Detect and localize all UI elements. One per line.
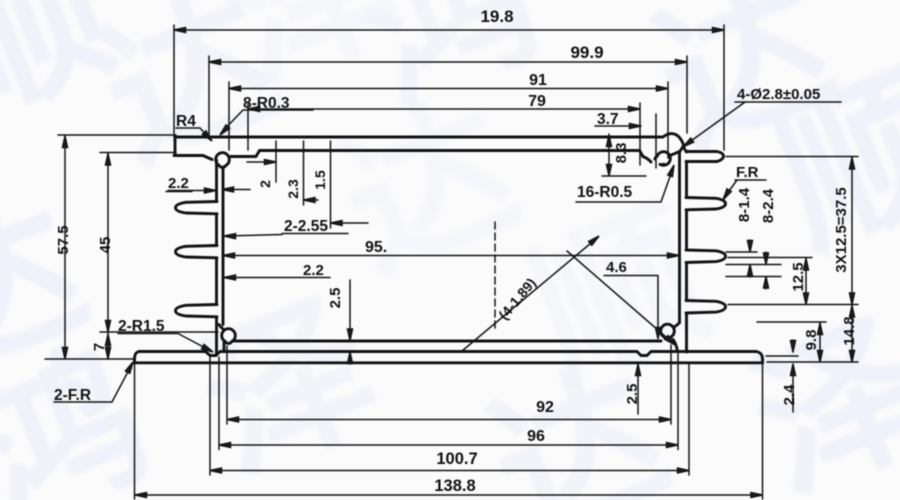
svg-text:99.9: 99.9 [570,43,603,62]
svg-text:2.2: 2.2 [168,175,189,192]
svg-text:16-R0.5: 16-R0.5 [577,184,633,201]
dim 8.3 [602,134,646,176]
svg-text:2.2: 2.2 [303,262,324,279]
svg-text:3X12.5=37.5: 3X12.5=37.5 [833,187,850,273]
svg-text:8-R0.3: 8-R0.3 [243,95,290,112]
dim 4.6 [604,276,658,337]
svg-text:1.5: 1.5 [312,170,328,190]
svg-text:7: 7 [91,343,108,351]
top bar bottom edge centre [231,151,644,157]
screw boss top-right [657,152,670,166]
dim 92 [227,345,671,424]
svg-text:95.: 95. [365,239,387,256]
top bar top edge [175,134,684,147]
leader diagonal right [567,251,674,344]
svg-text:2-F.R: 2-F.R [54,387,91,404]
right wall head joint [680,147,687,153]
top bar left tip edge [174,137,177,156]
dim 2.2 lower [226,277,330,279]
inner floor line [233,340,661,343]
right fin 3 [686,301,726,314]
left fin 1 [176,202,218,214]
svg-text:2.5: 2.5 [624,384,641,405]
svg-text:R4: R4 [176,113,196,130]
left fin 2 [176,246,218,258]
svg-text:4.6: 4.6 [606,259,627,276]
base plate right corner [756,352,763,364]
top bar bottom edge left taper [174,156,212,160]
dim 2.3 lower [349,280,351,364]
svg-text:2: 2 [257,180,273,188]
dim 100.7 [210,357,689,475]
screw boss top-left [216,153,230,166]
base plate top edge [139,352,756,356]
leader 2-R1.5 [118,334,211,352]
svg-text:2.3: 2.3 [285,179,301,199]
leader 2-F.R [54,364,132,402]
dim 7 arrows [106,334,111,346]
right fin 2 [686,250,726,263]
dim 2.2 upper [166,190,250,192]
wall joint stubs right [643,152,680,163]
dim 3.7 [595,114,656,168]
svg-text:96: 96 [527,428,545,445]
svg-text:79: 79 [528,93,546,110]
dim 138.8 [135,363,763,499]
leader 4-2.8 hole callout [684,102,841,146]
right top tab [686,152,724,162]
dim 12.5 [728,258,858,305]
right wall outer segments [685,162,688,353]
right wall inner segments [673,152,680,352]
dim 96 [219,353,678,450]
svg-text:91: 91 [529,72,547,89]
top small dims extension lines [276,141,331,228]
dim 45 and 7 shared line [100,153,218,360]
leader diagonal 4-1.89 [462,238,597,351]
dim 91 [229,82,668,158]
leader 8-R0.3 [221,110,313,133]
dim 99.9 [209,56,687,135]
dim 95. [223,255,679,257]
left wall inner segments [223,167,224,352]
leader F.R right [724,180,766,198]
dim 14.8 [767,305,858,363]
dim 2.4 [766,340,798,412]
svg-text:2-R1.5: 2-R1.5 [118,318,165,335]
dim 57.5 [45,135,176,359]
svg-text:92: 92 [536,399,554,416]
svg-text:45: 45 [97,237,114,254]
dim 2.5 bottom-right [637,366,639,414]
dim 9.8 [757,322,826,362]
svg-text:3.7: 3.7 [597,111,619,128]
leader 16-R0.5 [576,168,673,202]
right fin 1 [686,198,726,210]
svg-text:138.8: 138.8 [434,477,475,495]
leader R4 [176,128,211,140]
svg-text:4-Ø2.8±0.05: 4-Ø2.8±0.05 [737,86,820,103]
svg-text:2.5: 2.5 [327,288,344,309]
svg-text:100.7: 100.7 [436,450,477,468]
dim 8-1.4 [726,240,781,277]
svg-text:8-2.4: 8-2.4 [760,188,777,223]
centerline [494,222,496,332]
dim 19.8 top [174,25,724,150]
left fin 3 [176,305,218,317]
svg-text:19.8: 19.8 [480,7,513,26]
svg-text:F.R: F.R [736,164,759,181]
svg-text:12.5: 12.5 [790,262,807,291]
svg-text:8.3: 8.3 [613,143,630,164]
svg-text:14.8: 14.8 [841,316,858,345]
dim 8-2.4 [726,252,781,289]
base plate left corner [135,352,140,364]
svg-text:2-2.55: 2-2.55 [284,218,328,235]
svg-text:8-1.4: 8-1.4 [736,187,753,222]
base plate bottom edge [135,361,763,364]
screw boss bottom-right [661,324,675,337]
svg-text:9.8: 9.8 [803,330,820,351]
svg-text:2.4: 2.4 [781,384,798,406]
leader 2-2.55 [226,234,348,237]
dim 3X12.5=37.5 [726,157,858,305]
dim 79 [248,103,640,165]
screw boss bottom-left [222,329,236,342]
left wall outer segments [215,160,218,355]
svg-text:57.5: 57.5 [55,225,72,254]
